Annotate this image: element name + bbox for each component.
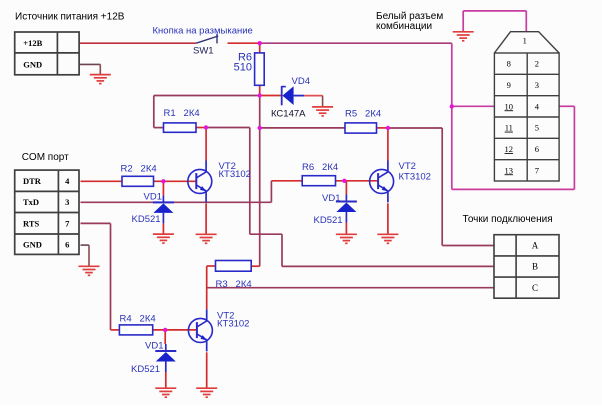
svg-text:KD521: KD521	[132, 214, 161, 225]
svg-text:COM порт: COM порт	[22, 152, 69, 163]
svg-text:КС147А: КС147А	[271, 109, 306, 120]
svg-text:Кнопка на размыкание: Кнопка на размыкание	[153, 26, 253, 37]
svg-text:TxD: TxD	[23, 197, 39, 207]
svg-text:RTS: RTS	[23, 218, 40, 228]
svg-text:А: А	[532, 241, 539, 251]
svg-text:R5 2К4: R5 2К4	[345, 109, 381, 120]
svg-text:комбинации: комбинации	[376, 20, 432, 32]
svg-text:DTR: DTR	[23, 176, 42, 186]
svg-text:SW1: SW1	[193, 46, 214, 57]
svg-text:VD4: VD4	[292, 76, 310, 87]
svg-text:КТ3102: КТ3102	[217, 319, 249, 330]
svg-text:Точки подключения: Точки подключения	[463, 214, 553, 225]
svg-text:VD1: VD1	[144, 192, 162, 203]
svg-text:10: 10	[505, 101, 514, 111]
svg-text:5: 5	[535, 123, 539, 133]
svg-text:2: 2	[535, 59, 539, 69]
svg-text:3: 3	[65, 197, 69, 207]
svg-text:VD1: VD1	[322, 193, 340, 204]
svg-text:+12В: +12В	[23, 38, 42, 48]
svg-text:КТ3102: КТ3102	[399, 172, 431, 183]
svg-text:VD1: VD1	[145, 341, 163, 352]
svg-text:KD521: KD521	[314, 215, 343, 226]
svg-text:4: 4	[65, 176, 70, 186]
svg-text:6: 6	[65, 239, 69, 249]
svg-text:R4 2К4: R4 2К4	[120, 314, 156, 325]
svg-text:VT2: VT2	[399, 161, 416, 172]
svg-text:11: 11	[505, 123, 513, 133]
svg-text:6: 6	[535, 144, 539, 154]
svg-text:510: 510	[234, 62, 252, 74]
svg-text:С: С	[532, 283, 538, 293]
svg-text:R3 2К4: R3 2К4	[216, 279, 252, 290]
svg-text:7: 7	[535, 165, 539, 175]
svg-text:3: 3	[535, 80, 539, 90]
svg-text:КТ3102: КТ3102	[219, 169, 251, 180]
svg-text:8: 8	[507, 59, 511, 69]
svg-text:7: 7	[65, 218, 70, 228]
svg-text:1: 1	[523, 36, 527, 46]
svg-text:4: 4	[535, 101, 540, 111]
svg-text:R1 2К4: R1 2К4	[164, 108, 200, 119]
svg-text:Источник питания +12В: Источник питания +12В	[15, 12, 125, 23]
svg-text:В: В	[532, 262, 538, 272]
svg-text:R6 2К4: R6 2К4	[302, 162, 338, 173]
svg-text:GND: GND	[23, 239, 42, 249]
svg-text:GND: GND	[23, 59, 42, 69]
svg-text:12: 12	[505, 144, 514, 154]
svg-text:13: 13	[505, 165, 514, 175]
svg-text:R2 2К4: R2 2К4	[121, 164, 157, 175]
svg-text:9: 9	[507, 80, 511, 90]
svg-text:KD521: KD521	[131, 364, 160, 375]
